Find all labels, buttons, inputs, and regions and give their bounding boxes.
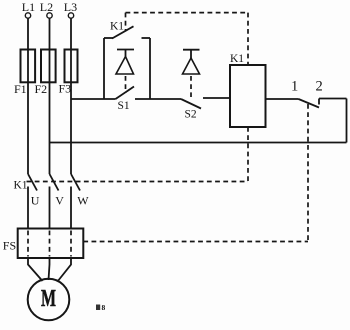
svg-text:L3: L3: [64, 0, 77, 14]
svg-text:8: 8: [102, 303, 106, 312]
svg-text:K1: K1: [230, 53, 244, 65]
svg-text:K1: K1: [14, 179, 28, 191]
svg-text:V: V: [55, 194, 64, 208]
svg-text:S2: S2: [185, 109, 197, 121]
svg-text:K1: K1: [110, 21, 124, 33]
svg-text:F3: F3: [59, 82, 72, 96]
svg-text:L1: L1: [22, 0, 35, 14]
svg-text:1: 1: [291, 79, 298, 95]
svg-text:M: M: [41, 285, 56, 312]
svg-text:FS: FS: [3, 239, 16, 253]
svg-text:F2: F2: [35, 82, 48, 96]
svg-text:2: 2: [316, 79, 323, 95]
svg-text:F1: F1: [14, 82, 27, 96]
svg-text:L2: L2: [40, 0, 53, 14]
svg-text:W: W: [77, 194, 89, 208]
svg-text:S1: S1: [118, 100, 130, 112]
svg-text:U: U: [31, 194, 40, 208]
